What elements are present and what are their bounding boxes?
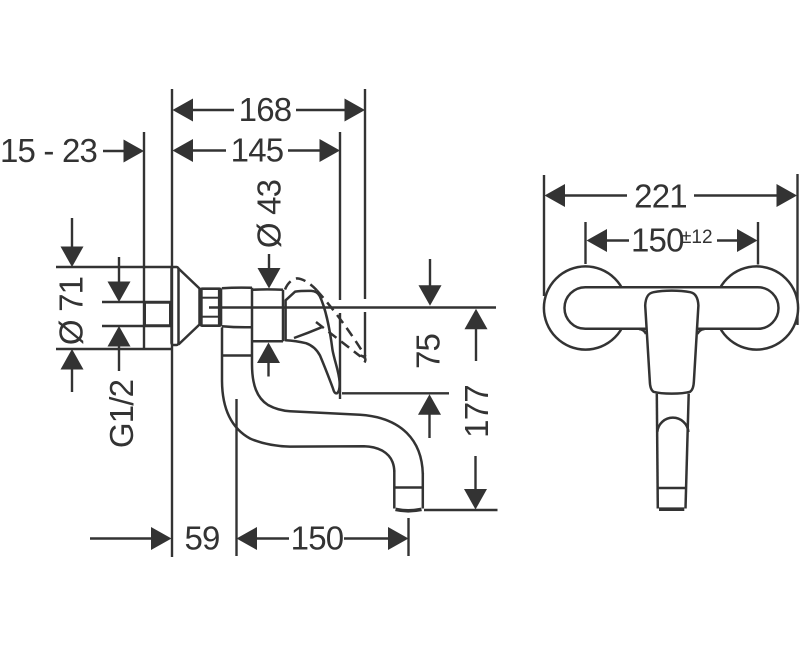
arrows Ø43 (258, 268, 281, 289)
dim Ø71 lines (56, 266, 171, 268)
center axis line (209, 306, 496, 308)
dim Ø43 shafts (268, 254, 270, 269)
arrow 15-23 (124, 140, 145, 163)
dim 15-23 leader shaft (103, 150, 124, 152)
handle raised tip hook (361, 356, 366, 363)
extension line wall-face x144 (143, 132, 145, 350)
aerator line (394, 486, 423, 489)
fillet right of handle (698, 329, 705, 334)
svg-text:Ø 43: Ø 43 (251, 180, 288, 248)
svg-text:221: 221 (634, 178, 687, 215)
front spout tube (657, 394, 658, 509)
escutcheon cone (179, 269, 200, 345)
extension line 221 right x797 (796, 174, 798, 325)
svg-text:15 - 23: 15 - 23 (0, 132, 97, 169)
extension line 150 left x585 (584, 222, 586, 264)
extension line 168 right x365 (364, 89, 366, 299)
arrows 177 (465, 309, 488, 330)
75 bottom reference line y393 (342, 392, 449, 394)
svg-text:150: 150 (631, 222, 684, 259)
svg-text:75: 75 (410, 334, 447, 369)
spout tube bend (222, 356, 394, 473)
handle inner edge line (294, 327, 322, 338)
arrows Ø71 (61, 247, 84, 268)
arrows 221 (545, 184, 566, 207)
wall flange (172, 267, 179, 345)
svg-text:145: 145 (231, 132, 284, 169)
svg-text:150: 150 (291, 520, 344, 557)
front spout bend arc (657, 418, 688, 432)
extension line 221 left x544 (543, 175, 545, 296)
dim 177 shafts (475, 329, 477, 362)
arrows bottom 59/150 (151, 527, 172, 550)
arrows 168 (173, 99, 194, 122)
handle raised dashed hump (285, 278, 317, 290)
inlet square G1/2 (145, 302, 171, 326)
knurled nut (201, 289, 222, 326)
left escutcheon circle (544, 266, 627, 349)
cartridge section (252, 288, 283, 291)
front aerator line (658, 487, 686, 490)
handle solid outline (286, 291, 340, 393)
svg-text:Ø 71: Ø 71 (53, 277, 90, 345)
dim line 145 (193, 149, 226, 151)
dim line 168 (193, 109, 234, 111)
handle raised dashed upper edge (317, 290, 366, 356)
dim line 150pm12 (607, 239, 630, 241)
dim line 221 (565, 194, 628, 196)
handle raised dashed lower edge (316, 322, 361, 357)
177 bottom reference line y510 (424, 509, 498, 511)
body cylinder (222, 286, 252, 289)
spout outlet (393, 470, 396, 509)
svg-text:G1/2: G1/2 (103, 380, 140, 448)
svg-text:168: 168 (239, 91, 292, 128)
bottom dim line y538 (90, 537, 152, 539)
svg-text:177: 177 (458, 385, 495, 438)
extension line spout axis x236 (235, 399, 237, 556)
extension line wall x172 (171, 89, 173, 557)
extension line 145 right x340 (339, 132, 341, 300)
dim G1/2 lines (102, 301, 143, 303)
fillet left of handle (639, 329, 646, 334)
extension line outlet axis x408 (407, 518, 409, 556)
front outlet bottom thick (659, 507, 684, 511)
svg-text:±12: ±12 (681, 227, 713, 248)
outlet bottom thick (396, 509, 422, 510)
svg-text:59: 59 (184, 520, 219, 557)
arrows 150pm12 (587, 229, 608, 252)
handle front (645, 291, 698, 394)
spout collar (221, 328, 224, 356)
connecting bar body (565, 287, 779, 329)
arrows 75 (419, 285, 442, 306)
arrows 145 (173, 139, 194, 162)
extension line 150 right x758 (757, 222, 759, 265)
dim 75 shafts (429, 259, 431, 286)
arrows G1/2 (108, 282, 131, 303)
right escutcheon circle (715, 266, 798, 349)
